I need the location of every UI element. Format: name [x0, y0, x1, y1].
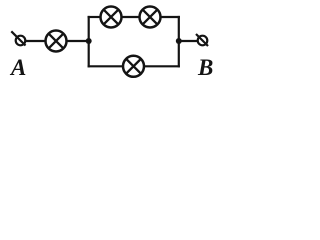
label B	[198, 56, 213, 79]
wire: top branch right segment	[161, 16, 180, 18]
wire: top branch middle segment	[122, 16, 139, 18]
terminal A (binding post circle)	[16, 36, 26, 46]
wire: right vertical of parallel section	[178, 16, 180, 68]
wire: bottom branch left segment	[88, 65, 123, 67]
lamp 2 cross	[104, 10, 119, 25]
terminal A slash	[11, 31, 25, 45]
wire: left vertical of parallel section	[88, 16, 90, 68]
wire: right node to terminal B	[179, 40, 198, 42]
lamp 4 cross	[126, 59, 141, 74]
terminal B (binding post circle)	[198, 36, 208, 46]
label A	[11, 56, 26, 79]
wire: terminal A to lamp 1	[26, 40, 46, 42]
lamp 2 circle (top branch left)	[101, 7, 122, 28]
junction dot left node	[86, 38, 92, 44]
lamp 1 circle (series lamp)	[46, 31, 67, 52]
lamp 3 cross	[143, 10, 158, 25]
wire: bottom branch right segment	[144, 65, 180, 67]
terminal B slash	[196, 34, 208, 46]
lamp 1 cross	[49, 34, 64, 49]
wire: top branch left segment	[88, 16, 100, 18]
junction dot right node	[176, 38, 182, 44]
wire: lamp 1 to left node	[66, 40, 88, 42]
lamp 3 circle (top branch right)	[140, 7, 161, 28]
lamp 4 circle (bottom branch)	[123, 56, 144, 77]
